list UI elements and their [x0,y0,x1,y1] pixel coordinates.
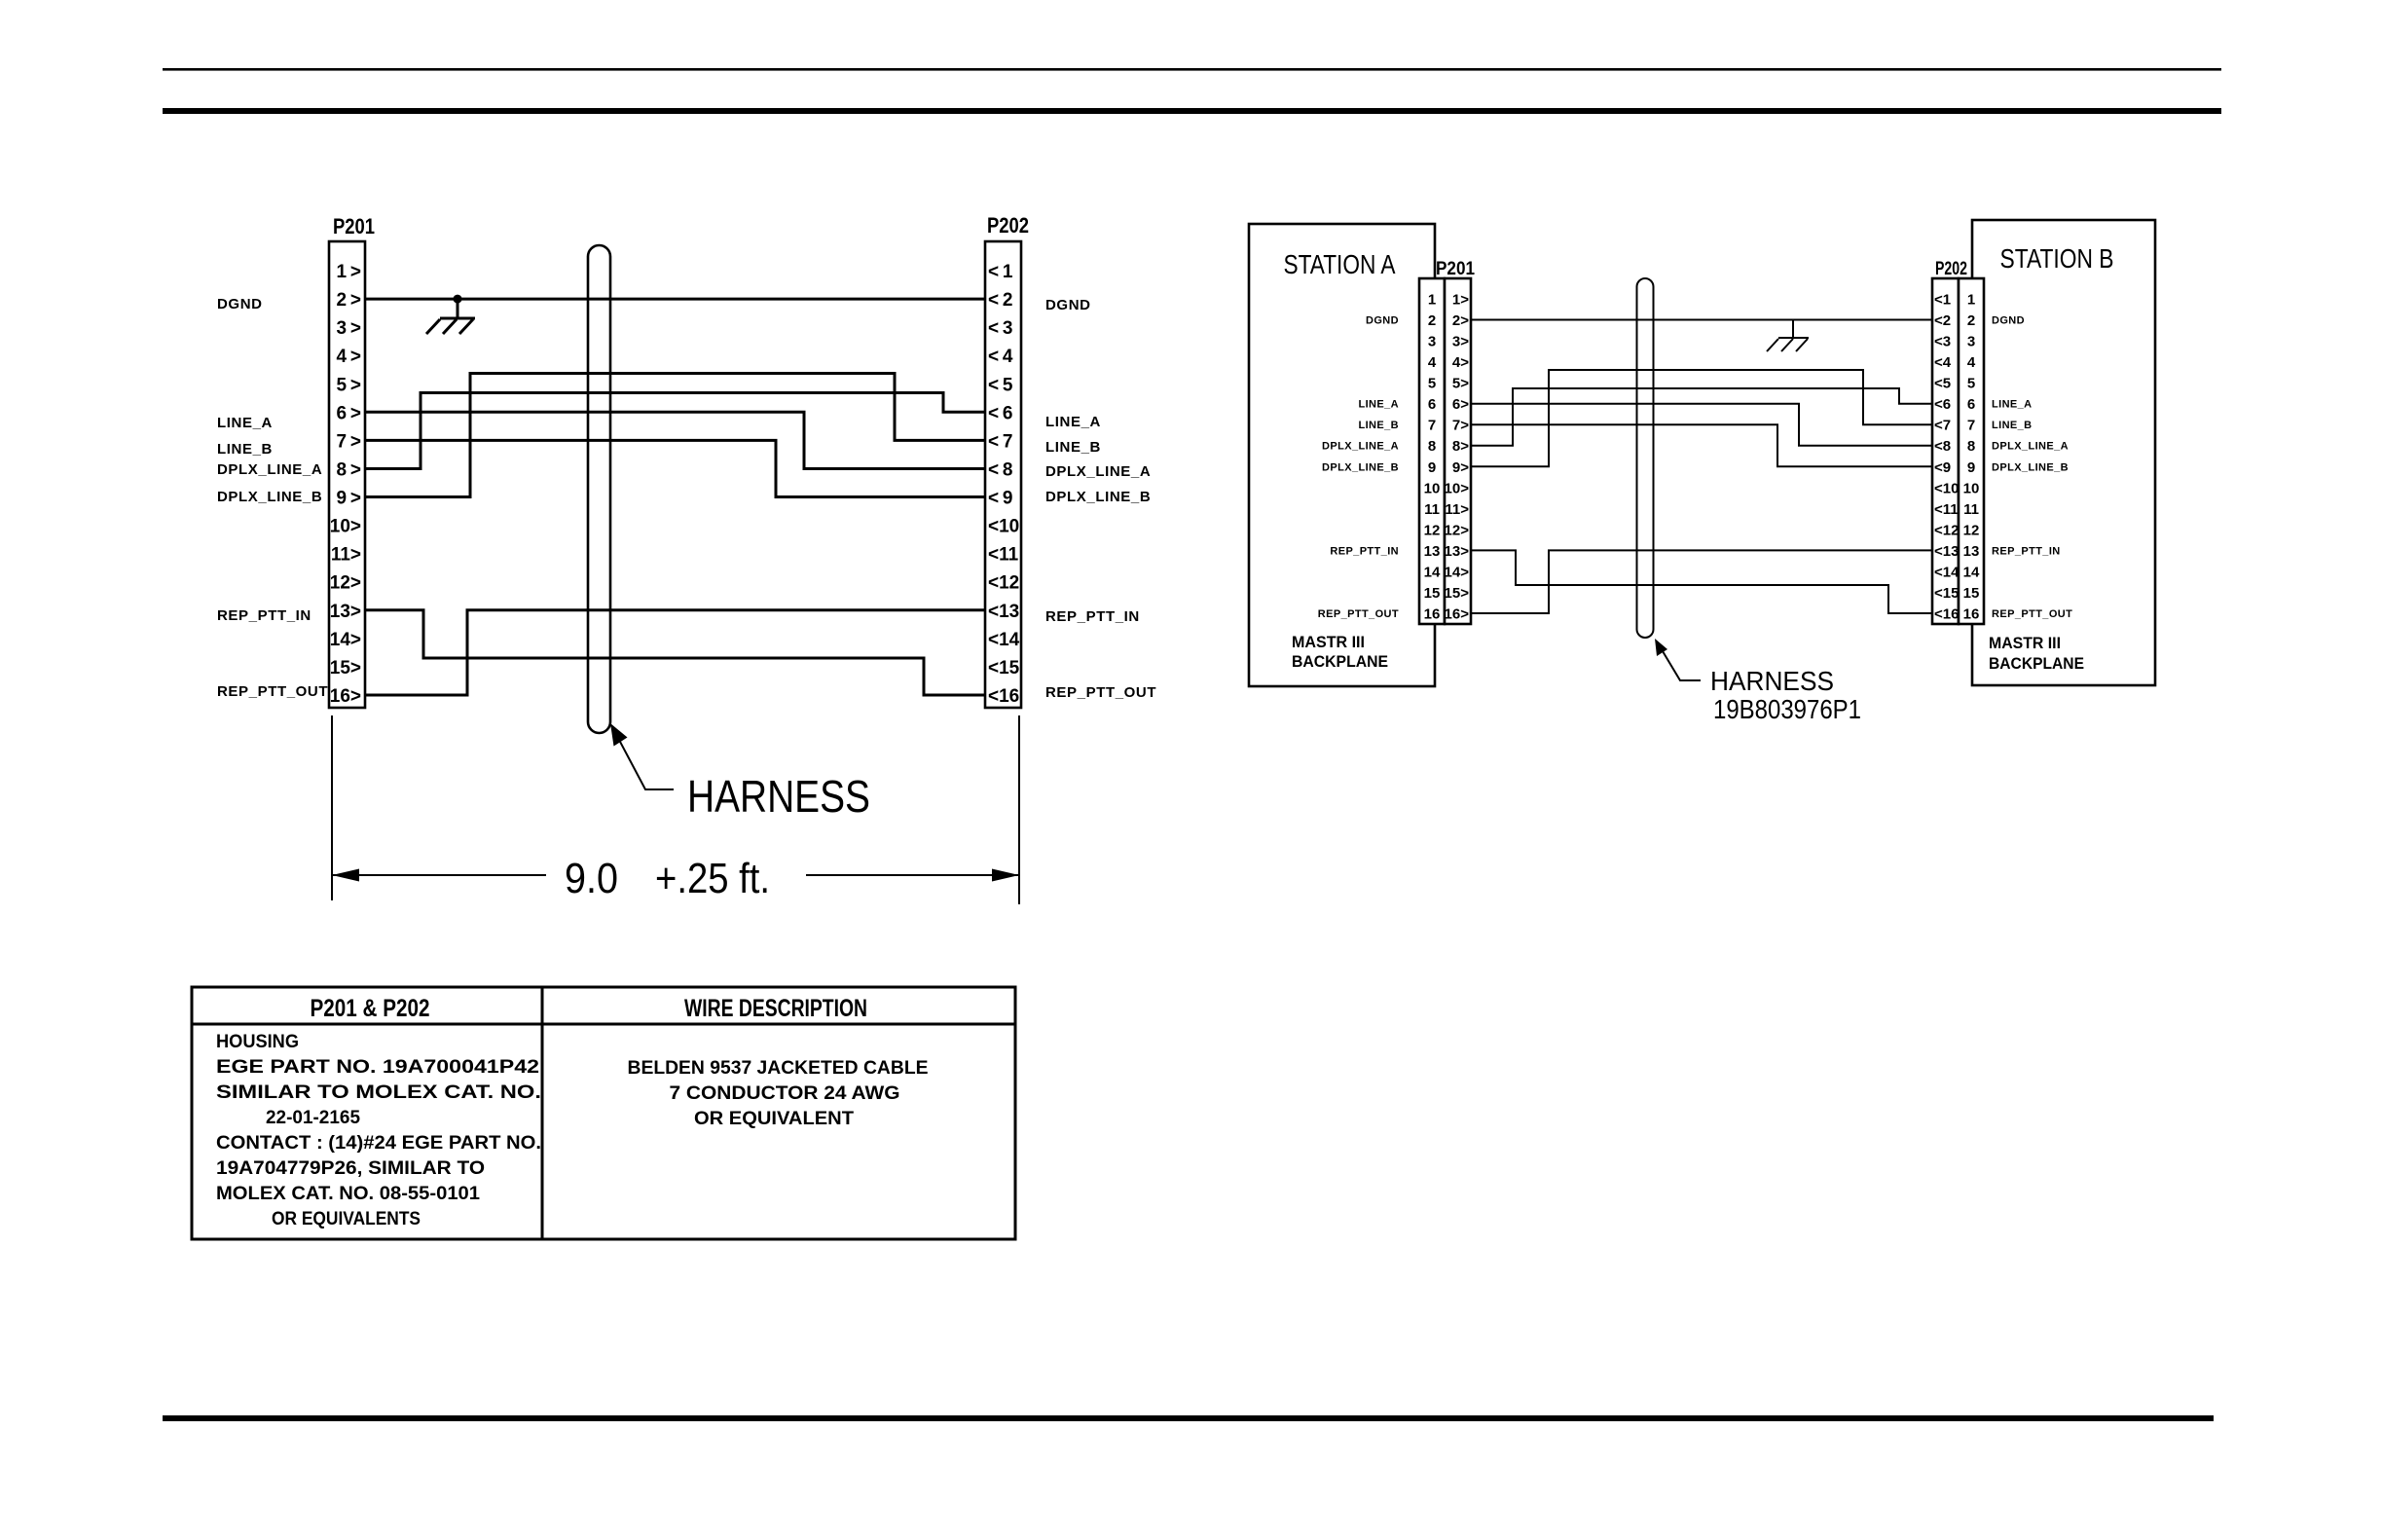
svg-text:REP_PTT_OUT: REP_PTT_OUT [217,683,328,700]
svg-text:14: 14 [1424,564,1441,580]
svg-text:1: 1 [1428,292,1436,309]
svg-text:DGND: DGND [217,296,263,312]
svg-text:7 >: 7 > [337,431,361,452]
svg-text:<6: <6 [1934,396,1951,413]
svg-text:<12: <12 [1934,522,1959,538]
svg-text:3: 3 [1428,334,1436,350]
svg-text:2 >: 2 > [337,290,361,311]
svg-text:10>: 10> [1445,480,1470,496]
svg-text:12>: 12> [1445,522,1470,538]
STATION B box [1972,220,2155,685]
svg-text:OR EQUIVALENT: OR EQUIVALENT [694,1109,854,1129]
svg-text:DGND: DGND [1366,315,1399,327]
svg-text:< 2: < 2 [988,290,1012,311]
connector P201 (right diagram) [1436,259,1475,624]
svg-text:P202: P202 [987,213,1029,238]
svg-text:<7: <7 [1934,418,1951,434]
svg-text:8: 8 [1428,438,1436,455]
wire DPLX_LINE_A (right diagram) [1471,388,1932,446]
svg-text:< 5: < 5 [988,375,1013,395]
svg-text:6: 6 [1967,396,1975,413]
svg-text:<8: <8 [1934,438,1951,455]
svg-text:5 >: 5 > [337,375,361,395]
svg-text:9: 9 [1428,459,1436,476]
dimension extension line left [331,715,333,900]
svg-text:BACKPLANE: BACKPLANE [1292,652,1388,671]
svg-text:10>: 10> [330,517,361,537]
svg-text:<10: <10 [1934,480,1959,496]
svg-text:19A704779P26, SIMILAR TO: 19A704779P26, SIMILAR TO [216,1158,485,1179]
svg-text:BACKPLANE: BACKPLANE [1989,654,2084,673]
wire DPLX_LINE_A P201.8 to P202.6 [365,393,985,469]
svg-text:< 8: < 8 [988,460,1012,481]
svg-text:DPLX_LINE_A: DPLX_LINE_A [1322,441,1399,453]
wire DGND P201.2 to P202.2 [365,298,985,301]
svg-text:<16: <16 [1934,606,1959,623]
svg-text:P201 & P202: P201 & P202 [311,995,430,1022]
svg-text:BELDEN 9537 JACKETED CABLE: BELDEN 9537 JACKETED CABLE [628,1058,929,1079]
svg-text:EGE PART NO. 19A700041P42: EGE PART NO. 19A700041P42 [216,1057,539,1078]
svg-text:LINE_A: LINE_A [1992,399,2033,411]
wire DPLX_LINE_B P201.9 to P202.7 [365,374,985,497]
connector P202 (right diagram) [1932,259,1967,624]
svg-text:3 >: 3 > [337,318,361,339]
svg-text:REP_PTT_IN: REP_PTT_IN [1992,545,2061,557]
connector P202 (left diagram) [985,213,1029,708]
wire LINE_B P201.7 to P202.9 [365,440,985,496]
wire DPLX_LINE_B (right diagram) [1471,370,1932,466]
svg-text:13: 13 [1424,543,1441,560]
svg-text:13>: 13> [330,602,361,622]
svg-text:10: 10 [1424,480,1441,496]
svg-text:2: 2 [1967,312,1975,329]
junction dot on DGND wire [454,295,462,304]
svg-text:9>: 9> [1452,459,1469,476]
backplane pin column (station B) [1959,278,1984,624]
svg-text:REP_PTT_OUT: REP_PTT_OUT [1045,684,1156,701]
bottom thick border rule [163,1415,2214,1421]
svg-text:11: 11 [1424,501,1440,518]
svg-text:11>: 11> [1445,501,1469,518]
svg-text:LINE_B: LINE_B [1358,420,1399,431]
svg-text:<14: <14 [1934,564,1960,580]
svg-text:DGND: DGND [1992,315,2025,327]
svg-text:< 4: < 4 [988,347,1013,367]
svg-text:22-01-2165: 22-01-2165 [266,1108,360,1128]
svg-text:<9: <9 [1934,459,1951,476]
svg-text:1: 1 [1967,292,1975,309]
svg-text:5: 5 [1428,376,1436,392]
svg-text:6>: 6> [1452,396,1469,413]
svg-text:9.0: 9.0 [565,855,618,902]
harness cable loop (right diagram) [1637,278,1654,638]
connector P201 (left diagram) [329,214,375,708]
dimension line with arrowheads [332,874,546,876]
svg-text:16: 16 [1963,606,1980,623]
svg-text:19B803976P1: 19B803976P1 [1713,694,1861,724]
svg-text:<4: <4 [1934,354,1952,371]
svg-text:<15: <15 [988,658,1020,678]
svg-text:<12: <12 [988,573,1019,594]
svg-text:7: 7 [1428,418,1436,434]
wire REP_PTT_IN P201.13 to P202.16 [365,610,985,695]
svg-text:15: 15 [1963,585,1980,602]
svg-text:WIRE DESCRIPTION: WIRE DESCRIPTION [684,995,867,1022]
svg-text:<13: <13 [988,602,1019,622]
svg-text:7>: 7> [1452,418,1469,434]
svg-text:STATION B: STATION B [2000,243,2114,274]
wire LINE_A P201.6 to P202.8 [365,412,985,468]
svg-text:5: 5 [1967,376,1975,392]
ground symbol (right diagram) [1767,320,1809,352]
svg-text:16: 16 [1424,606,1441,623]
backplane pin column (station A) [1419,278,1445,624]
dimension extension line right [1018,715,1020,904]
svg-text:8 >: 8 > [337,460,361,481]
svg-text:11>: 11> [331,545,361,566]
svg-text:5>: 5> [1452,376,1469,392]
svg-text:LINE_A: LINE_A [1045,414,1101,430]
HARNESS leader arrow (right diagram) [1655,639,1667,656]
svg-text:14: 14 [1963,564,1980,580]
svg-text:<3: <3 [1934,334,1951,350]
svg-text:HARNESS: HARNESS [1710,666,1834,696]
svg-text:LINE_B: LINE_B [1045,439,1101,456]
svg-text:SIMILAR TO MOLEX CAT. NO.: SIMILAR TO MOLEX CAT. NO. [216,1082,541,1103]
STATION A box [1249,224,1435,686]
svg-text:HARNESS: HARNESS [687,771,870,822]
svg-text:16>: 16> [1445,606,1470,623]
wire LINE_A (right diagram) [1471,404,1932,446]
svg-text:REP_PTT_OUT: REP_PTT_OUT [1318,608,1399,620]
svg-text:2>: 2> [1452,312,1469,329]
wire REP_PTT_OUT P201.16 to P202.13 [365,610,985,695]
svg-text:6 >: 6 > [337,403,361,423]
svg-text:< 6: < 6 [988,403,1012,423]
svg-text:7: 7 [1967,418,1975,434]
svg-text:15>: 15> [330,658,361,678]
parts table [192,987,1015,1239]
svg-text:LINE_A: LINE_A [1358,399,1399,411]
svg-text:4: 4 [1967,354,1976,371]
HARNESS leader arrow (left diagram) [610,723,674,789]
svg-text:8: 8 [1967,438,1975,455]
svg-text:DPLX_LINE_B: DPLX_LINE_B [1045,489,1151,505]
svg-text:MASTR III: MASTR III [1292,633,1365,651]
svg-text:2: 2 [1428,312,1436,329]
harness cable loop (left diagram) [588,245,610,733]
svg-text:10: 10 [1963,480,1980,496]
svg-text:6: 6 [1428,396,1436,413]
svg-text:<10: <10 [988,517,1019,537]
svg-text:11: 11 [1963,501,1979,518]
svg-text:8>: 8> [1452,438,1469,455]
svg-text:MASTR III: MASTR III [1989,634,2061,652]
svg-text:14>: 14> [330,630,361,650]
svg-text:13>: 13> [1445,543,1470,560]
svg-text:15: 15 [1424,585,1441,602]
svg-text:LINE_B: LINE_B [217,441,273,458]
svg-text:CONTACT : (14)#24 EGE PART NO.: CONTACT : (14)#24 EGE PART NO. [216,1133,541,1154]
wire LINE_B (right diagram) [1471,424,1932,466]
svg-text:14>: 14> [1445,564,1470,580]
svg-text:16>: 16> [330,686,361,707]
svg-text:4: 4 [1428,354,1437,371]
svg-text:12: 12 [1424,522,1441,538]
svg-text:<5: <5 [1934,376,1951,392]
svg-text:P202: P202 [1935,259,1967,279]
svg-text:DPLX_LINE_B: DPLX_LINE_B [217,489,322,505]
svg-text:<16: <16 [988,686,1019,707]
svg-text:12>: 12> [330,573,361,594]
svg-text:DGND: DGND [1045,297,1091,313]
svg-text:9: 9 [1967,459,1975,476]
svg-text:<13: <13 [1934,543,1959,560]
svg-text:STATION A: STATION A [1284,249,1396,279]
svg-text:P201: P201 [1436,259,1475,279]
svg-text:<2: <2 [1934,312,1951,329]
svg-text:DPLX_LINE_B: DPLX_LINE_B [1992,461,2069,473]
svg-text:<15: <15 [1934,585,1959,602]
svg-text:+.25 ft.: +.25 ft. [655,855,770,902]
svg-text:4>: 4> [1452,354,1469,371]
svg-text:<1: <1 [1934,292,1951,309]
svg-text:12: 12 [1963,522,1980,538]
svg-text:1 >: 1 > [337,262,361,282]
svg-text:15>: 15> [1445,585,1470,602]
svg-text:DPLX_LINE_B: DPLX_LINE_B [1322,461,1399,473]
svg-text:MOLEX CAT. NO. 08-55-0101: MOLEX CAT. NO. 08-55-0101 [216,1184,480,1204]
ground symbol (left diagram) [426,299,475,334]
wire REP_PTT_IN (right diagram) [1471,550,1932,613]
svg-text:13: 13 [1963,543,1980,560]
svg-text:LINE_A: LINE_A [217,415,273,431]
svg-text:1>: 1> [1452,292,1469,309]
svg-text:DPLX_LINE_A: DPLX_LINE_A [217,461,322,478]
svg-text:REP_PTT_OUT: REP_PTT_OUT [1992,608,2072,620]
svg-text:< 9: < 9 [988,489,1012,509]
svg-text:DPLX_LINE_A: DPLX_LINE_A [1045,463,1151,480]
svg-text:3: 3 [1967,334,1975,350]
svg-text:REP_PTT_IN: REP_PTT_IN [217,607,311,624]
svg-text:< 1: < 1 [988,262,1013,282]
wire DGND (right diagram) [1471,319,1932,321]
svg-text:REP_PTT_IN: REP_PTT_IN [1045,608,1140,625]
svg-text:LINE_B: LINE_B [1992,420,2033,431]
top thick border rule [163,108,2221,114]
svg-text:REP_PTT_IN: REP_PTT_IN [1330,545,1399,557]
top thin border rule [163,68,2221,71]
svg-text:P201: P201 [333,214,375,238]
svg-text:4 >: 4 > [337,347,361,367]
svg-text:<11: <11 [1934,501,1959,518]
svg-text:< 7: < 7 [988,431,1012,452]
svg-text:OR EQUIVALENTS: OR EQUIVALENTS [272,1209,421,1229]
svg-text:< 3: < 3 [988,318,1012,339]
svg-text:DPLX_LINE_A: DPLX_LINE_A [1992,441,2069,453]
svg-text:<11: <11 [988,545,1019,566]
svg-text:7 CONDUCTOR 24 AWG: 7 CONDUCTOR 24 AWG [670,1083,900,1104]
svg-text:3>: 3> [1452,334,1469,350]
svg-text:9 >: 9 > [337,489,361,509]
wire REP_PTT_OUT (right diagram) [1471,550,1932,613]
svg-text:HOUSING: HOUSING [216,1032,299,1052]
svg-text:<14: <14 [988,630,1020,650]
